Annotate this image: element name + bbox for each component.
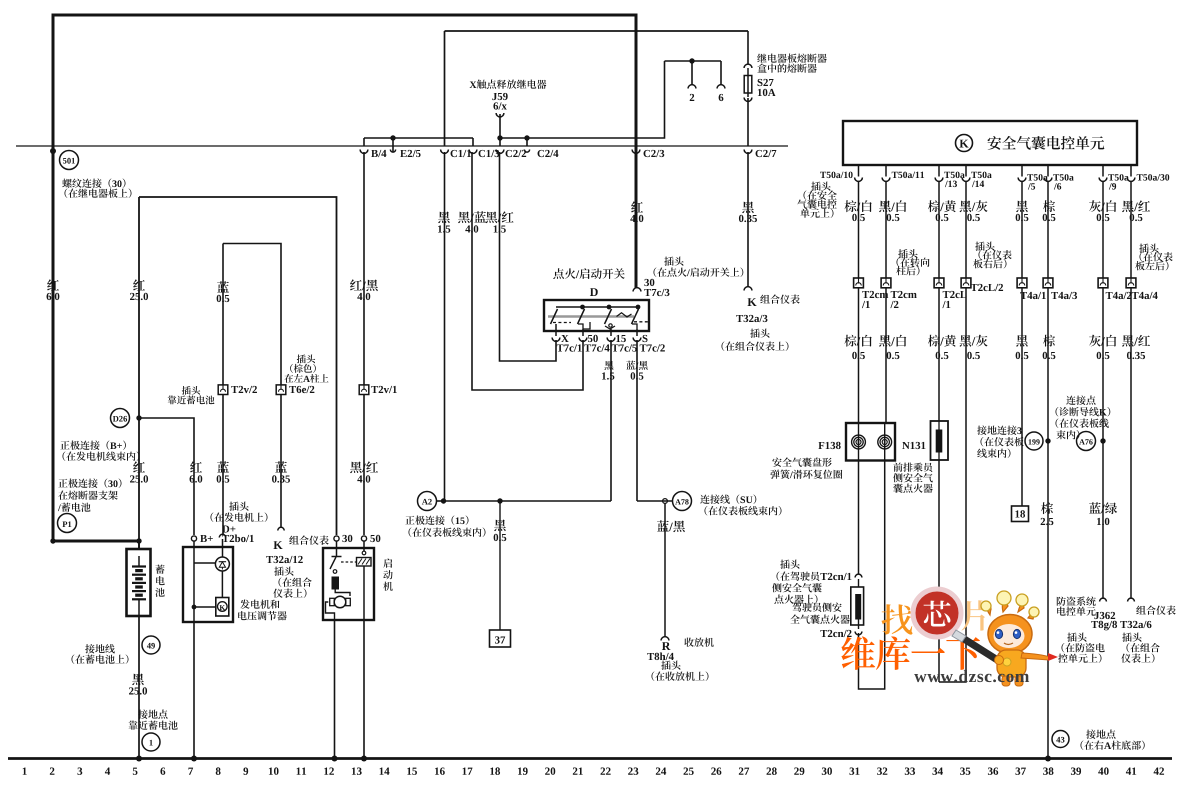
wire ECU column x=1103 upper <box>1102 181 1104 278</box>
label positive connection 30 <box>58 479 122 512</box>
terminal B+ generator <box>191 535 212 542</box>
node 43 ground point <box>1052 731 1069 748</box>
wire B+ to diode <box>194 562 215 564</box>
connector claw K cluster T32a/3 <box>744 287 752 291</box>
node ignition rail j2 <box>607 305 612 310</box>
ignition contact X <box>551 309 572 324</box>
wire col2 to F138 <box>885 288 887 423</box>
label plug brown on A pillar <box>284 355 328 383</box>
label wire 棕/黄 0.5 upper <box>928 200 956 221</box>
wire S down to A78 rail <box>636 340 638 501</box>
label clock spring <box>770 458 842 479</box>
wire blue 0.5 down <box>222 244 224 386</box>
label wire red/black 4.0 <box>350 279 378 300</box>
connector plug T2cm/2 <box>881 278 917 308</box>
generator C body <box>183 547 233 622</box>
node ignition rail j3 <box>636 305 641 310</box>
connector plug T2cL/2 <box>961 278 1003 291</box>
connector plug T2cL/1 <box>934 278 966 308</box>
wire fuse to bus C2/7 <box>747 98 749 146</box>
connector claw D+ T2bo/1 <box>219 534 225 537</box>
label wire 灰/白 0.5 upper <box>1089 200 1116 221</box>
wire B/4 drop above bus <box>363 138 365 146</box>
label wire 黑/白 lower <box>879 335 906 359</box>
node junction 6/x rail <box>497 135 502 140</box>
wire blue 0.5 to D+ <box>222 395 224 535</box>
starter solenoid winding <box>332 577 339 589</box>
label wire blue/black 0.5 below S <box>626 361 648 380</box>
label wire 灰/白 lower <box>1089 335 1116 359</box>
wire rail 2-6 horizontal <box>665 60 722 62</box>
wire D+ into generator <box>221 539 223 598</box>
node battery top <box>136 538 141 543</box>
label ignition/starter switch <box>553 268 624 296</box>
label radio R <box>647 638 714 681</box>
wire ECU column x=858.5 upper <box>858 181 860 278</box>
label wire black 0.35 <box>739 202 757 223</box>
connector claw T2cn/1 <box>820 573 861 580</box>
node A76 connection <box>1077 432 1106 451</box>
wire motor to box bottom <box>326 602 335 620</box>
label wire black/red 1.5 <box>486 211 514 232</box>
terminal 18 box <box>1012 506 1029 522</box>
label wire 黑/灰 lower <box>960 335 988 359</box>
connector claw X T7c/1 <box>552 335 582 352</box>
label battery vertical <box>155 565 164 597</box>
label connection point diagnostic K <box>1056 396 1111 440</box>
starter B body <box>323 548 374 620</box>
wire thick vertical red 4.0 to ignition <box>635 14 638 289</box>
wire drop to pin 2 <box>691 61 693 85</box>
label T32a/6 cluster <box>1120 606 1175 664</box>
connector claw C2/7 <box>744 150 776 158</box>
connector claw pin 2 <box>688 85 696 101</box>
connector claw ECU pin T50a/5 <box>1018 165 1048 190</box>
wire black/blue 4.0 to ignition 50 <box>472 152 583 390</box>
wire rail down-left to C2 rail <box>500 61 665 138</box>
connector claw C2/4 <box>524 150 558 158</box>
wire generator to ground rail <box>193 622 195 758</box>
label wire 棕/黄 lower <box>928 335 956 359</box>
wire col6 brown to ground rail <box>1047 288 1049 758</box>
connector claw fuse top <box>744 64 752 68</box>
label wire red 4.0 <box>630 201 643 222</box>
label wire 棕/白 0.5 upper <box>844 200 871 221</box>
node generator internal <box>192 605 197 610</box>
connector claw radio T8h/4 <box>661 637 669 641</box>
label ground point A pillar <box>1081 730 1145 750</box>
connector claw T7c/3 <box>633 279 669 296</box>
wire starter to ground rail <box>334 620 336 758</box>
label wire 黑/红 0.5 upper <box>1122 200 1150 221</box>
wire J59 6/x to bus <box>499 114 501 146</box>
label generator and voltage regulator <box>238 600 287 621</box>
wire thick battery top link <box>52 540 140 543</box>
label wire 棕 lower <box>1043 335 1056 359</box>
label wire blue 0.5 <box>217 281 230 302</box>
connector claw T32a/6 <box>1128 598 1135 601</box>
node ground battery <box>136 756 142 762</box>
label wire 棕/白 lower <box>844 335 871 359</box>
wire blue/black to radio <box>664 503 666 637</box>
terminal 37 box <box>490 630 511 647</box>
wire col7 to J362 <box>1102 288 1104 599</box>
connector claw ECU pin T50a/11 <box>882 165 924 181</box>
label ground connection 3 <box>977 426 1024 458</box>
wire ignition 15 terminal <box>610 329 612 336</box>
clock spring right spiral <box>878 435 892 449</box>
wire C1/3 drop above bus <box>472 138 474 146</box>
label wire 黑 0.5 upper <box>1016 201 1029 222</box>
wire ECU column x=966 upper <box>965 181 967 278</box>
connector claw ECU pin T50a/6 <box>1044 165 1074 190</box>
node battery top left <box>50 538 55 543</box>
ignition switch D body <box>544 300 649 331</box>
connector claw C1/3 <box>469 150 499 158</box>
label row2 red 25.0 <box>130 461 148 482</box>
connector claw pin 6 <box>717 85 725 102</box>
node 199 ground connection <box>1025 432 1051 450</box>
node junction C2/4 rail <box>524 135 529 140</box>
label plug on airbag ECU <box>797 182 837 218</box>
label starter vertical <box>383 559 393 591</box>
wire 30-bus horizontal rail <box>16 145 788 147</box>
node 49 <box>142 636 160 654</box>
wire S rail to A78 <box>637 500 673 502</box>
wire battery to ground rail <box>138 616 140 758</box>
fuse S27 annotation <box>757 54 827 97</box>
label row2 black/red 4.0 <box>350 461 378 482</box>
connector plug T4a/1 <box>1017 278 1046 299</box>
connector claw ECU pin T50a/9 <box>1099 165 1129 190</box>
node A78 connection <box>673 492 692 511</box>
wire col8 to T32a/6 <box>1130 288 1132 599</box>
watermark dzsc logo <box>841 589 1058 686</box>
wire red 25.0 down <box>138 197 140 549</box>
connector plug T4a/4 <box>1126 278 1158 299</box>
battery A body <box>127 549 151 616</box>
node 1 ground point <box>142 733 160 751</box>
connector claw S T7c/2 <box>633 335 665 352</box>
label plug behind dash right <box>973 242 1011 269</box>
node A2 connection <box>418 492 444 511</box>
label wire brown 2.5 <box>1041 502 1054 525</box>
starter motor M <box>330 596 351 608</box>
label airbag control unit <box>988 136 1105 150</box>
wire black 0.35 down to instrument cluster <box>747 152 749 287</box>
wire col4 loop <box>939 288 966 682</box>
connector claw E2/5 <box>390 150 420 158</box>
wire C2/4 stub to bus <box>526 138 528 146</box>
label wire 黑/白 0.5 upper <box>879 200 906 221</box>
node radio drop junction <box>663 499 668 504</box>
ignition contact S <box>632 309 651 329</box>
node junction pin2 rail <box>689 58 694 63</box>
node junction black 0.5 drop <box>497 498 502 503</box>
label J362 immobilizer <box>1057 597 1117 663</box>
connector claw 50 T7c/4 <box>579 335 609 352</box>
label row2 blue 0.35 <box>272 461 290 482</box>
wire 15 down to A2 rail <box>610 340 612 501</box>
label plug on generator <box>211 502 268 543</box>
wire col1 to F138 <box>858 288 860 423</box>
wire ground rail <box>8 757 1172 760</box>
track numbers 1-42 <box>23 767 1164 774</box>
ignition switch internal rail <box>556 306 638 308</box>
airbag ECU K symbol <box>956 135 973 152</box>
wire blue 0.5 rail <box>223 244 281 386</box>
connector claw 15 T7c/5 <box>607 335 637 352</box>
wire D26 branch to generator B+ <box>139 418 194 535</box>
label plug on ignition switch <box>654 257 744 277</box>
wire red/black to starter 50 <box>363 395 365 536</box>
driver igniter connector body <box>851 579 864 629</box>
igniter N131 box <box>902 421 948 460</box>
generator regulator K box <box>216 598 229 617</box>
wire driver igniter loop <box>859 461 885 690</box>
wire E2/5 stub <box>392 138 394 152</box>
terminal 50 starter <box>361 535 380 542</box>
label instrument cluster K T32a/3 <box>722 295 800 352</box>
connector claw J362 <box>1100 598 1107 601</box>
label row2 blue 0.5 <box>217 461 230 482</box>
node ground generator <box>191 756 197 762</box>
connector claw fuse bottom <box>744 98 752 102</box>
label wire black 1.5 <box>438 212 450 233</box>
label cluster K T32a/12 <box>266 536 328 599</box>
connector claw K cluster <box>278 527 284 530</box>
terminal 30 starter <box>334 535 352 542</box>
connector plug T6e/2 <box>276 385 314 395</box>
label wire blue/black radio <box>657 520 685 532</box>
node ground starter coil <box>361 756 367 762</box>
wire coil down <box>363 566 365 620</box>
wire thick battery positive top rail <box>52 14 638 17</box>
wire generator B+ internal <box>193 541 195 622</box>
wire ignition S terminal <box>636 329 638 336</box>
label wire 黑/灰 0.5 upper <box>960 200 988 221</box>
label wire black 0.5 drop <box>494 520 507 542</box>
node P1 <box>58 514 77 533</box>
label passenger airbag igniter <box>893 463 933 493</box>
label wire 黑/红 lower <box>1122 335 1150 359</box>
label plug behind dash left <box>1135 244 1172 271</box>
connector claw J59 6/x <box>496 113 504 117</box>
label wire 棕 0.5 upper <box>1043 200 1056 221</box>
wire ECU column x=886 upper <box>885 181 887 278</box>
node junction A2 left <box>441 498 446 503</box>
node ignition rail j1 <box>580 305 585 310</box>
node ground starter <box>332 756 338 762</box>
label ground strap <box>72 644 129 664</box>
ignition contact 15 <box>605 309 616 329</box>
connector plug T2cm/1 <box>854 278 889 308</box>
connector plug T2v/2 <box>218 385 257 395</box>
relay J59 label <box>470 80 547 110</box>
label wire red 25.0 <box>130 279 148 300</box>
label plug on driver airbag igniter <box>772 560 822 604</box>
starter relay coil <box>341 541 371 566</box>
wire S27 column upper <box>747 31 749 64</box>
label ground point near battery <box>129 710 178 730</box>
wire red 25.0 rail to starter 30 <box>139 197 337 535</box>
wire black 1.5 C1/1 down <box>444 152 446 501</box>
label wire black 25.0 <box>129 674 147 695</box>
connector claw C1/1 <box>441 150 471 158</box>
wire red/black 4.0 down <box>363 152 365 385</box>
wire A2 rail <box>444 500 612 502</box>
wire ignition X terminal <box>555 324 557 336</box>
wire N131 bottom loop <box>938 460 940 682</box>
label positive connection 15 <box>405 516 485 538</box>
wire col5 to terminal 18 <box>1021 288 1023 506</box>
label driver airbag igniter <box>790 603 850 624</box>
connector claw ECU pin T50a/14 <box>962 165 992 187</box>
wire thick vertical red 6.0 left <box>52 14 55 542</box>
ignition contact 50 <box>578 309 591 329</box>
connector plug T2v/1 <box>359 385 397 395</box>
label connection SU <box>700 495 781 516</box>
connector claw C2/3 <box>632 150 664 158</box>
label positive connection B+ <box>60 441 139 461</box>
connector claw ECU pin T50a/30 <box>1127 165 1169 181</box>
clock spring F138 box <box>818 423 895 461</box>
connector claw ECU pin T50a/13 <box>935 165 965 187</box>
connector claw B/4 <box>360 150 386 158</box>
connector plug T4a/2 <box>1098 278 1131 299</box>
wire node to K box <box>194 606 216 608</box>
ignition switch slider bar <box>548 313 634 317</box>
battery plates <box>132 556 146 616</box>
label wire 黑 lower <box>1016 335 1029 359</box>
airbag control unit J234 box <box>843 121 1137 165</box>
label row2 red 6.0 <box>190 461 203 482</box>
wire solenoid to motor <box>335 589 350 596</box>
wire battery feed <box>138 541 140 549</box>
connector claw C2/2 <box>496 150 526 158</box>
wire black/red 1.5 to ignition X <box>500 152 557 361</box>
wire ignition 50 terminal <box>582 329 584 336</box>
wire C1/1 drop from rail <box>444 31 446 146</box>
wire black 0.5 to terminal 37 <box>499 503 501 630</box>
label screw connection (30) on relay plate <box>62 179 131 198</box>
wire blue 0.35 to cluster K <box>280 395 282 528</box>
node junction E2/5 <box>390 135 395 140</box>
wire F138 left down to T2cn/1 <box>858 460 860 574</box>
node 501 screw connection <box>60 151 79 170</box>
label wire black/blue 4.0 <box>458 211 486 232</box>
starter switch contact <box>330 541 342 573</box>
node D26 junction <box>111 409 142 428</box>
wire rail to fuse S27 <box>445 30 749 32</box>
fuse S27 body <box>744 68 752 97</box>
label plug behind steering column <box>896 249 929 275</box>
connector claw ECU pin T50a/10 <box>820 165 862 181</box>
wire col3 to N131 <box>938 288 940 421</box>
label plug near battery <box>168 386 215 404</box>
wire ECU column x=1048 upper <box>1047 181 1049 278</box>
label wire red 6.0 <box>47 279 60 300</box>
wire ECU column x=1022 upper <box>1021 181 1023 278</box>
label wire blue/green 1.0 <box>1089 502 1117 525</box>
connector claw T2cn/2 <box>820 630 861 637</box>
wire starter coil to ground rail <box>363 620 365 758</box>
node junction 501 on 30-bus <box>50 148 56 154</box>
connector plug T4a/3 <box>1043 278 1077 299</box>
wire ECU column x=1131 upper <box>1130 181 1132 278</box>
wire B/4 rail horizontal <box>364 137 473 139</box>
wire drop to pin 6 <box>720 61 722 85</box>
clock spring left spiral <box>852 435 866 449</box>
wire ECU column x=939 upper <box>938 181 940 278</box>
node ground brown wire <box>1045 756 1051 762</box>
label wire black 1.5 below 15 <box>602 361 614 380</box>
generator exciter diode circle <box>215 557 229 571</box>
